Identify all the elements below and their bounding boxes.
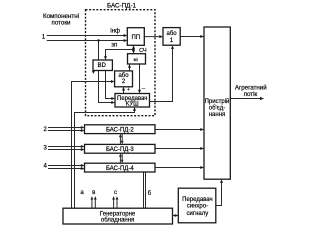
svg-text:нання: нання (209, 112, 226, 118)
svg-text:БАС-ПД-2: БАС-ПД-2 (106, 127, 134, 133)
svg-text:3: 3 (44, 145, 48, 151)
svg-text:в: в (92, 190, 95, 196)
svg-text:БАС-ПД-1: БАС-ПД-1 (107, 2, 137, 9)
svg-text:Пристрій: Пристрій (205, 98, 230, 105)
svg-text:Передавач: Передавач (182, 197, 212, 203)
svg-text:мі: мі (134, 57, 138, 62)
svg-text:БАС-ПД-3: БАС-ПД-3 (106, 147, 134, 153)
svg-text:ПП: ПП (131, 35, 140, 41)
svg-text:1: 1 (42, 35, 46, 41)
svg-text:потік: потік (244, 91, 258, 98)
svg-text:або: або (167, 31, 178, 37)
svg-text:або: або (118, 73, 129, 79)
svg-text:2: 2 (44, 127, 48, 133)
svg-text:потоки: потоки (51, 19, 71, 26)
svg-text:КУШ: КУШ (126, 102, 139, 108)
svg-text:б: б (148, 191, 152, 197)
svg-text:с: с (114, 190, 117, 196)
svg-text:–: – (142, 86, 146, 92)
svg-text:а: а (80, 190, 84, 196)
svg-text:обладнання: обладнання (101, 217, 134, 223)
svg-text:БАС-ПД-4: БАС-ПД-4 (106, 166, 134, 172)
svg-text:об'єд-: об'єд- (209, 106, 225, 112)
svg-text:+: + (127, 87, 130, 93)
svg-text:інф: інф (110, 28, 120, 34)
svg-text:зп: зп (111, 43, 117, 49)
svg-text:синхро-: синхро- (187, 204, 208, 210)
svg-text:BD: BD (98, 63, 107, 69)
svg-text:4: 4 (44, 163, 48, 169)
svg-text:сигналу: сигналу (187, 211, 209, 217)
svg-text:СЧ: СЧ (139, 48, 147, 54)
